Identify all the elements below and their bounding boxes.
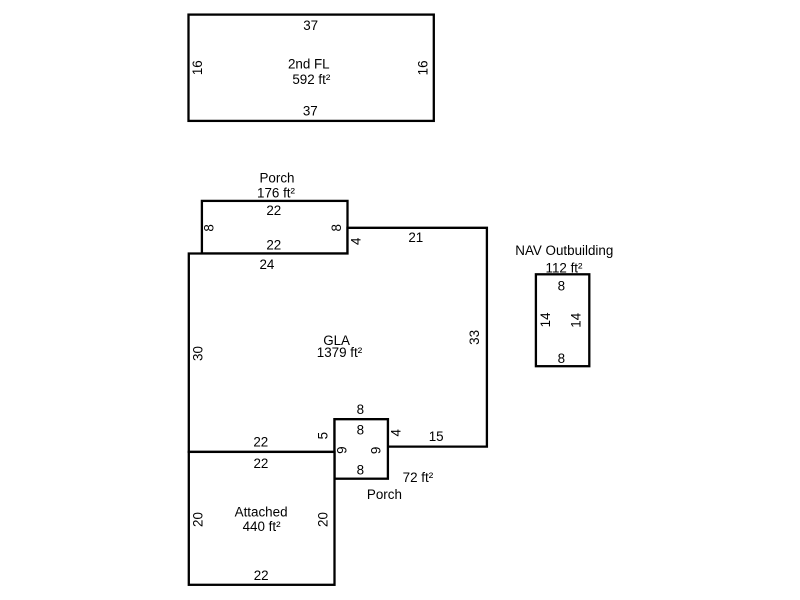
svg-text:16: 16: [415, 60, 430, 75]
svg-text:4: 4: [349, 237, 364, 245]
svg-text:30: 30: [190, 346, 205, 361]
svg-text:16: 16: [190, 60, 205, 75]
svg-text:33: 33: [467, 330, 482, 345]
svg-text:1379 ft²: 1379 ft²: [317, 345, 363, 360]
svg-text:21: 21: [408, 230, 423, 245]
svg-text:22: 22: [266, 203, 281, 218]
svg-text:22: 22: [254, 568, 269, 583]
svg-text:37: 37: [303, 104, 318, 119]
svg-text:2nd FL: 2nd FL: [288, 57, 330, 72]
svg-text:Porch: Porch: [260, 171, 295, 186]
svg-text:592 ft²: 592 ft²: [292, 72, 331, 87]
svg-text:9: 9: [369, 447, 384, 454]
svg-text:8: 8: [558, 278, 565, 293]
svg-text:22: 22: [253, 456, 268, 471]
svg-text:112 ft²: 112 ft²: [546, 260, 584, 275]
bottom porch outline: [335, 419, 388, 479]
svg-text:24: 24: [259, 257, 274, 272]
svg-text:440 ft²: 440 ft²: [243, 519, 282, 534]
svg-text:37: 37: [303, 18, 318, 33]
svg-text:8: 8: [357, 462, 364, 477]
NAV outbuilding outline: [536, 274, 589, 366]
svg-text:20: 20: [316, 512, 331, 527]
svg-text:8: 8: [558, 351, 565, 366]
svg-text:176 ft²: 176 ft²: [257, 186, 296, 201]
svg-text:8: 8: [329, 224, 344, 231]
svg-text:5: 5: [315, 432, 330, 439]
2nd floor outline: [189, 15, 434, 121]
svg-text:22: 22: [253, 434, 268, 449]
attached garage outline: [189, 452, 335, 585]
svg-text:4: 4: [389, 429, 404, 437]
svg-text:72 ft²: 72 ft²: [403, 470, 434, 485]
svg-text:14: 14: [538, 312, 553, 327]
svg-text:8: 8: [357, 402, 364, 417]
svg-text:20: 20: [190, 512, 205, 527]
GLA outline: [189, 228, 487, 452]
svg-text:14: 14: [568, 312, 583, 327]
svg-text:Attached: Attached: [235, 505, 288, 520]
svg-text:NAV Outbuilding: NAV Outbuilding: [515, 243, 613, 258]
svg-text:22: 22: [266, 238, 281, 253]
svg-text:8: 8: [202, 224, 217, 231]
svg-text:8: 8: [357, 422, 364, 437]
top porch outline: [202, 201, 348, 254]
svg-text:9: 9: [334, 446, 349, 453]
svg-text:Porch: Porch: [367, 487, 402, 502]
svg-text:15: 15: [429, 429, 444, 444]
